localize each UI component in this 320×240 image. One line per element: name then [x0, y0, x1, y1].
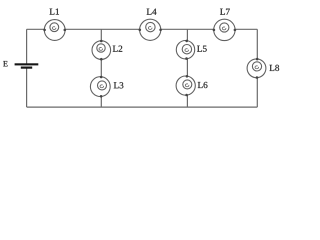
lamp L8	[247, 59, 266, 78]
junction dot at L8 terminal 2	[256, 76, 259, 79]
lamp L3	[90, 77, 110, 97]
label L5	[197, 46, 207, 52]
label L3	[114, 82, 124, 88]
junction dot at L4 terminal 2	[159, 29, 162, 32]
junction dot at L6 terminal 2	[185, 94, 188, 97]
wire branch 2 vertical through L5 L6	[186, 29, 188, 107]
label E	[3, 61, 7, 66]
junction dot at L1 terminal 1	[43, 29, 46, 32]
circuit schematic: battery E, lamps L1-L8	[0, 0, 285, 116]
junction dot at L2 terminal 2	[100, 58, 103, 61]
lamp L6	[176, 76, 195, 95]
wire right vertical	[256, 29, 258, 107]
lamp L5	[176, 41, 194, 59]
label L7	[220, 9, 230, 15]
junction dot at L3 terminal 1	[100, 76, 103, 79]
junction dot at L5 terminal 1	[185, 40, 188, 43]
junction dot at L4 terminal 1	[139, 29, 142, 32]
label L2	[113, 46, 122, 52]
wire left vertical lower from battery	[26, 68, 28, 107]
label L4	[147, 9, 157, 15]
label L8	[269, 65, 279, 71]
lamp L1	[44, 20, 65, 41]
wire top horizontal	[27, 28, 258, 30]
label L6	[198, 82, 208, 88]
wire branch 1 vertical through L2 L3	[100, 29, 102, 107]
lamp L4	[140, 19, 161, 40]
lamp L7	[214, 19, 235, 40]
junction dot at L7 terminal 1	[213, 29, 216, 32]
label L1	[50, 9, 59, 15]
junction dot at L2 terminal 1	[100, 40, 103, 43]
junction dot at L8 terminal 1	[256, 58, 259, 61]
wire left vertical upper to battery	[26, 29, 28, 63]
junction dot at L5 terminal 2	[185, 57, 188, 60]
junction dot at L1 terminal 2	[64, 29, 67, 32]
battery E	[15, 63, 39, 68]
lamp L2	[92, 41, 111, 60]
junction dot at L3 terminal 2	[100, 95, 103, 98]
wire bottom horizontal	[27, 106, 258, 108]
junction dot at L6 terminal 1	[186, 75, 189, 78]
junction dot at L7 terminal 2	[234, 29, 237, 32]
